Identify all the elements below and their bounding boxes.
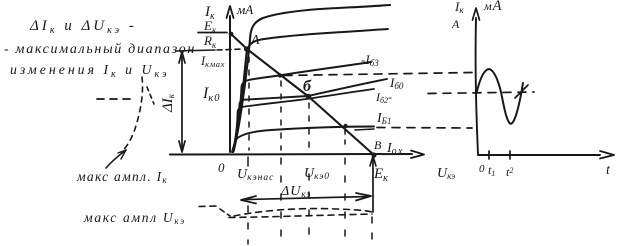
svg-text:б: б xyxy=(303,78,312,95)
svg-text:мА: мА xyxy=(236,2,253,17)
svg-text:А: А xyxy=(451,17,460,31)
svg-text:макс ампл. Iк: макс ампл. Iк xyxy=(76,169,168,185)
svg-text:t2: t2 xyxy=(506,165,513,179)
svg-text:A: A xyxy=(250,33,260,48)
svg-text:Uкэ0: Uкэ0 xyxy=(304,166,330,182)
svg-text:Uкэнас: Uкэнас xyxy=(237,167,274,183)
svg-text:Iб0: Iб0 xyxy=(389,75,404,91)
svg-text:Uкэ: Uкэ xyxy=(437,166,455,181)
svg-text:-Iб3: -Iб3 xyxy=(361,52,379,68)
svg-text:t: t xyxy=(606,163,611,178)
svg-text:Rк: Rк xyxy=(203,33,217,50)
svg-text:макс ампл Uкэ: макс ампл Uкэ xyxy=(83,210,186,226)
svg-text:В: В xyxy=(374,138,382,152)
svg-text:Eк: Eк xyxy=(373,166,388,184)
svg-text:Iкмах: Iкмах xyxy=(200,54,225,69)
svg-text:изменения Iк и Uкэ: изменения Iк и Uкэ xyxy=(10,62,169,80)
svg-text:ΔIк: ΔIк xyxy=(160,93,176,113)
svg-text:0: 0 xyxy=(479,163,485,175)
svg-text:Iк0: Iк0 xyxy=(202,85,221,104)
svg-text:Iох: Iох xyxy=(386,141,404,157)
svg-text:0: 0 xyxy=(218,160,225,175)
svg-text:ΔIк и ΔUкэ -: ΔIк и ΔUкэ - xyxy=(29,18,137,36)
svg-text:- максимальный диапазон: - максимальный диапазон xyxy=(4,42,196,57)
svg-text:Iк: Iк xyxy=(454,0,464,15)
svg-text:Iб2-: Iб2- xyxy=(375,90,392,105)
svg-text:IБ1: IБ1 xyxy=(376,111,391,126)
svg-text:мА: мА xyxy=(483,0,502,14)
svg-text:ΔUкэ: ΔUкэ xyxy=(280,184,311,199)
svg-text:t1: t1 xyxy=(488,163,495,178)
